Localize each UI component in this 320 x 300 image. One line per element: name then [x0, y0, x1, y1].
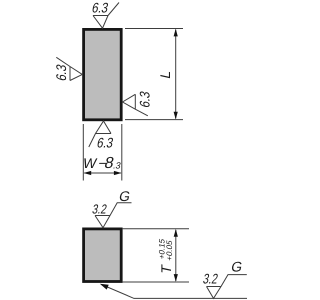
dimension line W [84, 172, 121, 174]
svg-text:3.2: 3.2 [91, 202, 108, 217]
arrowhead L top [174, 29, 178, 37]
part body (top view) W x L [84, 29, 122, 119]
surface symbol 6.3 left: triangle [56, 57, 82, 80]
ground symbol G 3.2 bottom-right: triangle with shoulder [207, 275, 247, 299]
arrowhead T top [174, 229, 178, 237]
svg-text:.3: .3 [112, 161, 122, 171]
svg-text:6.3: 6.3 [96, 134, 115, 150]
svg-text:L: L [157, 69, 173, 80]
arrowhead W right [114, 171, 122, 175]
svg-text:6.3: 6.3 [137, 90, 153, 109]
svg-text:+0.05: +0.05 [165, 239, 174, 262]
dimension line T [175, 230, 177, 281]
extension line W left [82, 124, 84, 181]
surface symbol 6.3 bottom: triangle [89, 121, 111, 147]
leader line to bottom face [102, 285, 248, 299]
dimension line L [175, 30, 177, 119]
surface symbol 6.3 top: triangle [93, 3, 119, 29]
ground symbol G 3.2 top: triangle with shoulder [95, 203, 132, 228]
label T tolerance +0.15/+0.05 (rotated) [158, 237, 174, 261]
surface symbol 6.3 right: triangle [123, 94, 148, 116]
extension line T bottom [123, 281, 189, 283]
svg-text:G: G [230, 258, 244, 274]
extension line L top [125, 28, 183, 30]
svg-text:6.3: 6.3 [91, 0, 110, 16]
svg-text:W: W [82, 155, 99, 171]
svg-text:6.3: 6.3 [53, 63, 69, 82]
extension line L bottom [125, 119, 183, 121]
part body (side view) W x T [84, 229, 122, 282]
svg-text:G: G [118, 188, 132, 204]
arrowhead W left [84, 171, 92, 175]
svg-text:T: T [158, 263, 174, 275]
extension line W right [121, 124, 123, 181]
arrowhead T bottom [174, 274, 178, 282]
svg-text:3.2: 3.2 [202, 271, 220, 287]
leader arrowhead at bottom face [100, 284, 109, 290]
arrowhead L bottom [174, 112, 178, 120]
extension line T top [123, 228, 189, 230]
